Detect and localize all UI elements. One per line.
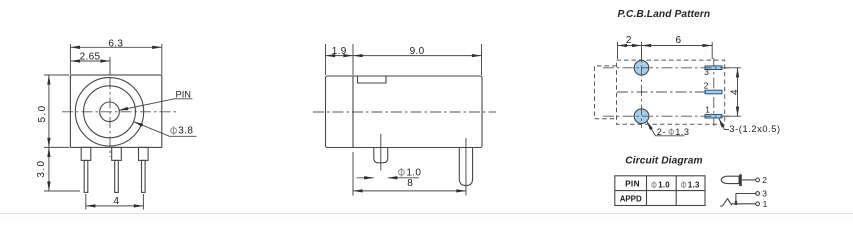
svg-text:3.8: 3.8 (178, 126, 193, 137)
svg-text:APPD: APPD (620, 195, 642, 204)
svg-text:3: 3 (704, 67, 709, 77)
svg-text:1: 1 (705, 105, 710, 115)
svg-text:2: 2 (626, 35, 632, 46)
svg-text:1: 1 (763, 199, 768, 209)
svg-text:1.3: 1.3 (688, 180, 700, 189)
svg-text:1.3: 1.3 (675, 127, 689, 137)
svg-text:4: 4 (730, 89, 741, 95)
svg-text:1.9: 1.9 (332, 46, 347, 57)
svg-text:2: 2 (762, 175, 767, 185)
svg-text:2.65: 2.65 (80, 52, 101, 63)
svg-text:6.3: 6.3 (108, 38, 123, 49)
svg-text:6: 6 (676, 35, 682, 46)
svg-text:5.0: 5.0 (37, 104, 48, 122)
svg-text:P.C.B.Land Pattern: P.C.B.Land Pattern (618, 9, 711, 20)
svg-text:9.0: 9.0 (410, 46, 425, 57)
svg-text:3.0: 3.0 (36, 160, 47, 178)
svg-text:1.0: 1.0 (658, 180, 670, 189)
svg-text:2: 2 (704, 80, 709, 90)
svg-text:3-(1.2x0.5): 3-(1.2x0.5) (729, 124, 780, 134)
svg-text:PIN: PIN (176, 89, 192, 99)
svg-text:Circuit Diagram: Circuit Diagram (625, 156, 702, 167)
svg-text:4: 4 (114, 196, 120, 207)
svg-text:PIN: PIN (625, 179, 640, 188)
svg-text:2-: 2- (657, 127, 666, 137)
svg-text:3: 3 (762, 188, 767, 198)
svg-text:8: 8 (407, 178, 413, 189)
